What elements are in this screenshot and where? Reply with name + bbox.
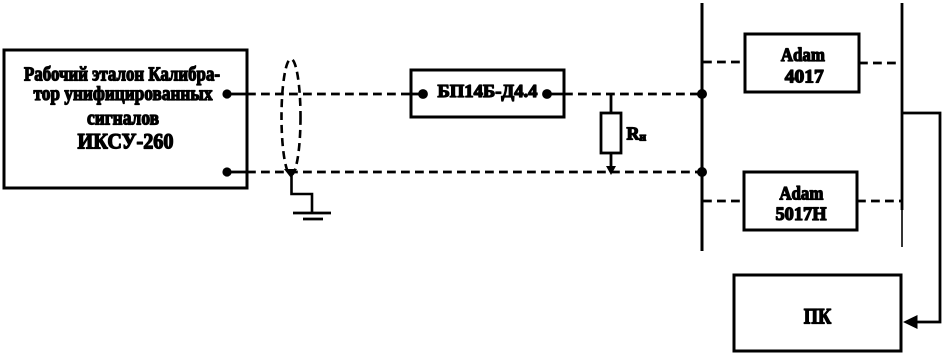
power supply БП14Б-Д4.4 <box>411 70 564 117</box>
shield junction blob <box>284 169 297 178</box>
wire to Adam 4017 <box>703 61 745 64</box>
terminal dot bottom <box>222 167 246 176</box>
svg-text:Adam: Adam <box>781 45 825 66</box>
Adam 5017H box <box>744 172 857 230</box>
svg-text:ИКСУ-260: ИКСУ-260 <box>78 129 174 154</box>
svg-text:5017Н: 5017Н <box>776 204 827 225</box>
PC box ПК <box>734 275 901 351</box>
bus line left <box>701 3 704 251</box>
wire Adam 5017H to right bus <box>857 200 902 203</box>
calibrator box ИКСУ-260 <box>4 50 247 188</box>
arrowhead into PC <box>903 315 918 329</box>
wire top (dashed) <box>247 93 411 96</box>
svg-text:н: н <box>640 132 647 144</box>
junction node bottom <box>697 167 707 177</box>
bus line right <box>901 3 904 210</box>
wire Adam 4017 to right bus <box>859 62 902 65</box>
svg-text:4017: 4017 <box>785 67 825 88</box>
svg-text:ПК: ПК <box>804 304 832 329</box>
wire to Adam 5017H <box>703 200 744 203</box>
svg-text:БП14Б-Д4.4: БП14Б-Д4.4 <box>438 81 538 101</box>
cable shield ellipse <box>282 59 301 175</box>
Adam 4017 box <box>745 34 859 92</box>
resistor Rн <box>601 94 647 175</box>
svg-text:тор унифицированных: тор унифицированных <box>34 83 213 105</box>
wire branch to PC <box>903 113 940 322</box>
wire top right of БП14Б <box>564 93 702 96</box>
svg-text:R: R <box>627 124 641 144</box>
svg-text:Adam: Adam <box>779 184 823 205</box>
terminal dot top <box>222 89 246 98</box>
bus line right thin tail <box>901 210 903 247</box>
wire bottom (dashed) <box>247 171 702 174</box>
junction node top <box>697 89 707 99</box>
svg-text:сигналов: сигналов <box>87 108 159 130</box>
ground <box>293 213 331 219</box>
ground wire <box>292 172 313 213</box>
